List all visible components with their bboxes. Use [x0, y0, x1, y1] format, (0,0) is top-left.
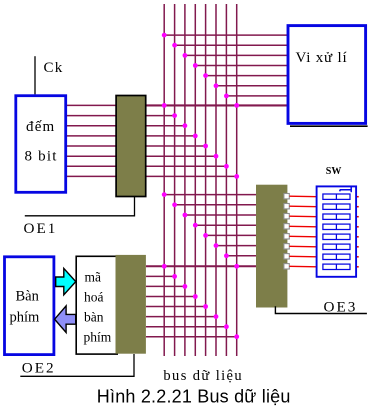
wire: counter output bit 2 to OE1 buffer: [67, 125, 117, 127]
svg-text:mã: mã: [85, 270, 102, 285]
wire: OE3 buffer input 2 with junction on bus D2: [183, 213, 257, 218]
block: keyboard encoder "mã hoá bàn phím": [76, 256, 117, 354]
block: microprocessor "Vi xử lí": [288, 26, 368, 127]
wire: buffer U3 pin 3 to switch SW3: [290, 215, 318, 218]
wire: OE2 buffer output 2 with junction on bus D2: [146, 284, 187, 289]
wire: OE3 buffer input 3 with junction on bus D3: [193, 223, 257, 228]
pin 6 of buffer U3: [284, 244, 289, 249]
switch SW7: [323, 254, 350, 259]
wire: OE1 buffer output 7 with junction on bus D7: [146, 174, 239, 179]
wire: stub right of switch SW7: [356, 256, 359, 258]
block: counter "đếm 8 bit": [16, 96, 66, 193]
wire: OE2 buffer output 5 with junction on bus D5: [146, 314, 218, 319]
wire: vertical bus line D4: [205, 4, 207, 356]
wire: stub right of switch SW3: [356, 216, 359, 218]
wire: OE1 buffer output 4 with junction on bus D4: [146, 144, 208, 149]
wire: Ck clock input to counter: [34, 56, 36, 94]
svg-text:8 bit: 8 bit: [25, 148, 58, 164]
arrow: keyboard to encoder (cyan block arrow): [56, 268, 76, 294]
svg-text:Ck: Ck: [44, 60, 64, 76]
wire: vertical bus line D0: [163, 4, 165, 356]
wire: vertical bus line D2: [184, 4, 186, 356]
svg-text:Bàn: Bàn: [16, 289, 40, 305]
svg-text:Vi xử lí: Vi xử lí: [296, 50, 348, 66]
wire: OE3 buffer input 4 with junction on bus D4: [203, 233, 256, 238]
switch SW5: [323, 234, 350, 239]
svg-text:phím: phím: [10, 310, 41, 326]
wire: buffer U3 pin 4 to switch SW4: [290, 225, 318, 228]
block: keyboard "Bàn phím": [5, 257, 54, 355]
switch SW8: [323, 264, 350, 269]
pin 3 of buffer U3: [284, 214, 289, 219]
wire: OE1 buffer output 3 with junction on bus D3: [146, 134, 198, 139]
wire: Vi xử lí data line 1 with junction on bus D1: [172, 43, 288, 48]
svg-text:OE2: OE2: [22, 360, 56, 377]
buffer U2 (three-state buffer, enable OE2): [116, 255, 146, 354]
svg-text:đếm: đếm: [26, 119, 55, 135]
wire: counter output bit 5 to OE1 buffer: [67, 155, 117, 157]
component SW: DIP switch block: [317, 186, 357, 276]
wire: buffer U3 pin 8 to switch SW8: [290, 265, 318, 268]
wire: stub right of switch SW1: [356, 196, 359, 198]
pin 8 of buffer U3: [284, 264, 289, 269]
switch SW3: [323, 214, 350, 219]
svg-text:bàn: bàn: [84, 310, 104, 325]
wire: OE3 buffer input 5 with junction on bus D5: [214, 243, 257, 248]
label "1" (rotated) on DIP switch: [340, 186, 352, 192]
pin 1 of buffer U3: [284, 194, 289, 199]
wire: OE1 buffer output 5 with junction on bus D5: [146, 154, 218, 159]
wire: Vi xử lí data line 4 with junction on bus D4: [203, 73, 288, 78]
wire: Vi xử lí data line 0 with junction on bus D0: [162, 33, 288, 38]
wire: OE2 buffer output 6 with junction on bus D6: [146, 324, 229, 329]
wire: stub right of switch SW5: [356, 236, 359, 238]
pin 7 of buffer U3: [284, 254, 289, 259]
wire: counter output bit 4 to OE1 buffer: [67, 145, 117, 147]
wire: OE3 buffer input 6 with junction on bus D6: [224, 253, 257, 258]
wire: OE3 buffer input 1 with junction on bus D1: [172, 202, 256, 207]
switch SW1: [323, 194, 350, 199]
switch SW6: [323, 244, 350, 249]
svg-text:OE3: OE3: [324, 299, 358, 316]
svg-text:bus dữ liệu: bus dữ liệu: [163, 368, 243, 384]
wire: vertical bus line D6: [225, 4, 227, 356]
wire: stub right of switch SW6: [356, 246, 359, 248]
wire: Vi xử lí data line 2 with junction on bus D2: [183, 53, 289, 58]
pin 4 of buffer U3: [284, 224, 289, 229]
svg-text:Hình 2.2.21 Bus dữ liệu: Hình 2.2.21 Bus dữ liệu: [97, 387, 291, 407]
wire: buffer U3 pin 2 to switch SW2: [290, 205, 318, 208]
wire: Vi xử lí data line 5 with junction on bus D5: [214, 83, 288, 88]
wire: vertical bus line D1: [174, 4, 176, 356]
pin 2 of buffer U3: [284, 204, 289, 209]
wire: vertical bus line D5: [215, 4, 217, 356]
wire: OE2 enable: [20, 354, 134, 376]
svg-text:SW: SW: [326, 166, 342, 177]
wire: counter output bit 1 to OE1 buffer: [67, 115, 117, 117]
wire: Vi xử lí data line 3 with junction on bus D3: [193, 63, 288, 68]
pin 5 of buffer U3: [284, 234, 289, 239]
buffer U1 (three-state buffer, enable OE1): [116, 96, 146, 197]
wire: OE3 enable: [275, 306, 367, 313]
wire: OE2 buffer output 3 with junction on bus D3: [146, 294, 198, 299]
wire: buffer U3 pin 6 to switch SW6: [290, 245, 318, 248]
wire: shared line OE2 buffer output / OE3 buffer input, junctions on D0 and D7: [146, 264, 257, 269]
wire: stub right of switch SW2: [356, 206, 359, 208]
wire: counter output bit 3 to OE1 buffer: [67, 135, 117, 137]
svg-text:hoá: hoá: [84, 290, 104, 305]
wire: vertical bus line D7: [236, 4, 238, 356]
wire: Vi xử lí data line 6 with junction on bus D6: [224, 94, 288, 99]
wire: buffer U3 pin 1 to switch SW1: [290, 195, 318, 198]
svg-text:OE1: OE1: [24, 220, 58, 237]
wire: shared line OE1 buffer output / Vi xử lí line 7, junctions on D0 and D7: [146, 103, 288, 108]
buffer U3 (three-state buffer, enable OE3): [256, 185, 287, 308]
wire: OE1 buffer output 2 with junction on bus D2: [146, 123, 187, 128]
switch SW2: [323, 204, 350, 209]
wire: stub right of switch SW8: [356, 266, 359, 268]
wire: buffer U3 pin 5 to switch SW5: [290, 235, 318, 238]
wire: OE2 buffer output 1 with junction on bus D1: [146, 274, 177, 279]
wire: OE2 buffer output 4 with junction on bus D4: [146, 304, 208, 309]
arrow: encoder to keyboard (violet block arrow): [55, 306, 76, 333]
wire: counter output bit 6 to OE1 buffer: [67, 165, 117, 167]
wire: OE2 buffer output 7 with junction on bus D7: [146, 334, 239, 339]
wire: stub right of switch SW4: [356, 226, 359, 228]
svg-text:phím: phím: [84, 330, 112, 345]
wire: buffer U3 pin 7 to switch SW7: [290, 255, 318, 258]
wire: OE1 buffer output 6 with junction on bus D6: [146, 164, 229, 169]
wire: counter output bit 7 to OE1 buffer: [67, 175, 117, 177]
wire: OE3 buffer input 0 with junction on bus D0: [162, 192, 257, 197]
wire: counter output bit 0 to OE1 buffer: [67, 104, 117, 106]
wire: OE1 enable: [25, 197, 135, 216]
wire: OE1 buffer output 1 with junction on bus D1: [146, 113, 177, 118]
wire: vertical bus line D3: [194, 4, 196, 356]
switch SW4: [323, 224, 350, 229]
